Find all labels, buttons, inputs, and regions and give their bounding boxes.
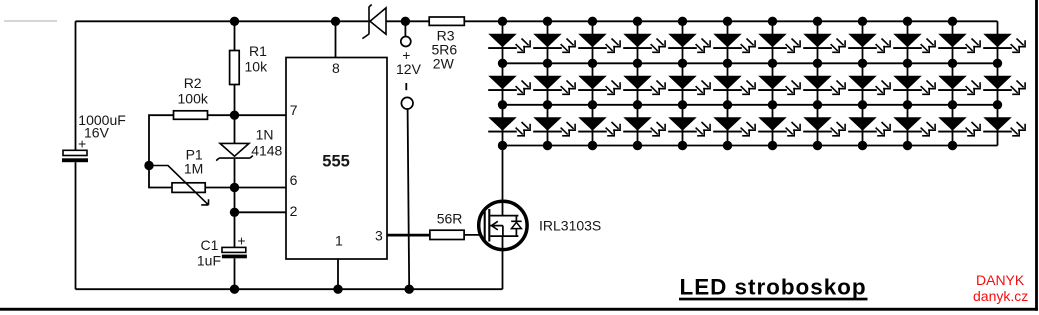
LED row 3 col 4 <box>623 118 665 136</box>
junction bottom bus col 1 <box>498 141 507 150</box>
LED row 3 col 10 <box>893 118 935 136</box>
LED row 3 col 12 <box>983 118 1025 136</box>
junction bus2 col 3 <box>588 59 597 68</box>
junction bus3 col 7 <box>768 100 777 109</box>
svg-text:R1: R1 <box>249 43 267 59</box>
svg-text:1N: 1N <box>256 127 274 143</box>
svg-text:+: + <box>78 136 86 152</box>
junction bus3 col 1 <box>498 100 507 109</box>
wire: LED column 2 <box>547 21 549 145</box>
junction bottom bus col 5 <box>678 141 687 150</box>
junction top bus col 7 <box>768 17 777 26</box>
op-amp U1 555 timer box <box>286 58 387 260</box>
node -12V supply terminal <box>401 83 413 289</box>
LED row 2 col 8 <box>803 76 845 94</box>
junction top bus col 5 <box>678 17 687 26</box>
wire: LED column 1 <box>502 21 504 145</box>
junction bus3 col 11 <box>948 100 957 109</box>
LED row 2 col 9 <box>848 76 890 94</box>
LED row 3 col 11 <box>938 118 980 136</box>
junction bus3 col 4 <box>633 100 642 109</box>
junction bottom bus col 9 <box>858 141 867 150</box>
junction bus2 col 6 <box>723 59 732 68</box>
wire: P1 to 555 pin 6 <box>205 187 286 189</box>
wire: R1 to pin7 node <box>234 85 236 116</box>
junction C1 / ground bus <box>230 285 239 294</box>
junction pin 1 / ground bus <box>333 285 342 294</box>
diode D1 reverse protection <box>362 5 386 39</box>
LED row 2 col 1 <box>488 76 530 94</box>
LED row 1 col 4 <box>623 34 665 52</box>
LED row 1 col 8 <box>803 34 845 52</box>
svg-text:10k: 10k <box>245 58 269 74</box>
junction bus3 col 6 <box>723 100 732 109</box>
junction bottom bus col 7 <box>768 141 777 150</box>
wire: LED bottom bus <box>503 145 998 147</box>
wire: capacitor negative to ground rail <box>75 162 77 289</box>
svg-text:+: + <box>237 232 245 248</box>
svg-text:555: 555 <box>322 153 350 171</box>
wire: left supply rail down to capacitor <box>75 21 77 150</box>
potentiometer P1 1M <box>149 146 209 205</box>
wire: LED top bus <box>503 20 998 22</box>
capacitor C1 1uF <box>197 232 247 268</box>
svg-text:16V: 16V <box>84 125 110 141</box>
svg-text:danyk.cz: danyk.cz <box>973 288 1028 304</box>
wire: 56R to gate of Q1 <box>464 234 484 236</box>
wire: diode anode to R3 <box>386 20 429 22</box>
LED row 2 col 6 <box>713 76 755 94</box>
svg-text:LED stroboskop: LED stroboskop <box>680 275 867 300</box>
svg-text:2W: 2W <box>433 55 455 71</box>
LED row 1 col 5 <box>668 34 710 52</box>
LED row 2 col 12 <box>983 76 1025 94</box>
junction R1-R2-pin7 node <box>230 111 239 120</box>
wire: LED column 12 <box>997 21 999 145</box>
LED row 3 col 6 <box>713 118 755 136</box>
diode 1N4148 <box>216 127 282 161</box>
LED row 2 col 7 <box>758 76 800 94</box>
wire: LED column 9 <box>862 21 864 145</box>
svg-text:56R: 56R <box>437 210 463 226</box>
junction bus3 col 8 <box>813 100 822 109</box>
LED row 3 col 3 <box>578 118 620 136</box>
junction top rail / pin 8 <box>331 17 340 26</box>
wire: +12V top rail from C2 to diode cathode <box>76 20 369 22</box>
junction bus3 col 5 <box>678 100 687 109</box>
junction bus2 col 11 <box>948 59 957 68</box>
wire: LED bus row 3 <box>503 104 998 106</box>
svg-text:8: 8 <box>332 60 340 76</box>
svg-text:1uF: 1uF <box>197 252 221 268</box>
resistor 56R <box>430 210 464 239</box>
LED row 2 col 5 <box>668 76 710 94</box>
wire: R2 left lead and corner down <box>149 115 174 187</box>
junction top bus col 9 <box>858 17 867 26</box>
resistor R3 5R6 2W <box>429 17 464 71</box>
svg-text:IRL3103S: IRL3103S <box>539 218 601 234</box>
svg-text:6: 6 <box>290 172 298 188</box>
wire: LED bus row 2 <box>503 62 998 64</box>
junction top rail / +12V <box>401 17 410 26</box>
svg-text:1M: 1M <box>184 160 203 176</box>
resistor R1 10k <box>230 43 268 84</box>
LED row 1 col 12 <box>983 34 1025 52</box>
LED row 2 col 4 <box>623 76 665 94</box>
wire: 555 pin 3 to 56R (thick) <box>387 234 430 237</box>
LED row 1 col 11 <box>938 34 980 52</box>
junction bus3 col 3 <box>588 100 597 109</box>
junction top bus col 2 <box>543 17 552 26</box>
LED row 1 col 7 <box>758 34 800 52</box>
junction top bus col 4 <box>633 17 642 26</box>
junction top bus col 6 <box>723 17 732 26</box>
junction bus2 col 2 <box>543 59 552 68</box>
junction bus3 col 10 <box>903 100 912 109</box>
wire: C1 to ground bus <box>234 258 236 289</box>
junction bus2 col 4 <box>633 59 642 68</box>
svg-text:2: 2 <box>290 203 298 219</box>
junction bottom bus col 2 <box>543 141 552 150</box>
junction bus2 col 1 <box>498 59 507 68</box>
LED row 1 col 10 <box>893 34 935 52</box>
wire: LED column 5 <box>682 21 684 145</box>
junction bus2 col 9 <box>858 59 867 68</box>
wire: pin7 node to 555 pin 7 <box>207 114 286 116</box>
junction bus3 col 2 <box>543 100 552 109</box>
svg-text:1: 1 <box>335 232 343 248</box>
junction bottom bus col 3 <box>588 141 597 150</box>
svg-text:12V: 12V <box>396 61 422 77</box>
wire: LED array return to Q1 drain <box>502 146 504 216</box>
junction top bus col 8 <box>813 17 822 26</box>
junction top rail / R1 <box>230 17 239 26</box>
junction pin 2 node <box>230 208 239 217</box>
transistor Q1 IRL3103S MOSFET <box>479 201 602 249</box>
junction top bus col 3 <box>588 17 597 26</box>
wire: top rail to R1 <box>234 21 236 50</box>
wire: R3 to LED array top bus <box>464 20 502 22</box>
wire: LED column 6 <box>727 21 729 145</box>
junction pin 6 node <box>230 183 239 192</box>
LED row 1 col 9 <box>848 34 890 52</box>
svg-text:7: 7 <box>290 102 298 118</box>
LED row 1 col 2 <box>533 34 575 52</box>
svg-text:DANYK: DANYK <box>976 272 1025 288</box>
junction bottom bus col 4 <box>633 141 642 150</box>
junction bus2 col 5 <box>678 59 687 68</box>
wire: LED column 4 <box>637 21 639 145</box>
junction bottom bus col 11 <box>948 141 957 150</box>
svg-text:100k: 100k <box>178 90 209 106</box>
junction bus3 col 9 <box>858 100 867 109</box>
wire: minus terminal down to ground bus <box>408 109 410 289</box>
LED row 3 col 8 <box>803 118 845 136</box>
wire: 555 pin 1 to ground bus <box>337 259 339 289</box>
junction P1 wiper tie <box>144 161 153 170</box>
wire: ground bus <box>76 288 503 290</box>
LED row 1 col 1 <box>488 34 530 52</box>
node +12V supply terminal <box>396 21 422 77</box>
LED row 1 col 3 <box>578 34 620 52</box>
junction bus2 col 7 <box>768 59 777 68</box>
wire: 1N4148 cathode down past pin6/pin2 nodes to C1 <box>234 159 236 248</box>
wire: LED column 10 <box>907 21 909 145</box>
junction bottom bus col 8 <box>813 141 822 150</box>
wire: scan artifact line top-left <box>4 20 57 22</box>
junction bus2 col 8 <box>813 59 822 68</box>
junction top bus col 10 <box>903 17 912 26</box>
junction bottom bus col 6 <box>723 141 732 150</box>
LED row 3 col 5 <box>668 118 710 136</box>
junction bus2 col 10 <box>903 59 912 68</box>
wire: LED column 11 <box>952 21 954 145</box>
svg-text:3: 3 <box>375 228 383 244</box>
wire: pin2 node to 555 pin 2 <box>235 211 287 213</box>
junction top bus col 1 <box>498 17 507 26</box>
LED row 3 col 9 <box>848 118 890 136</box>
junction minus terminal / ground bus <box>405 285 414 294</box>
svg-text:4148: 4148 <box>251 142 282 158</box>
junction top bus col 11 <box>948 17 957 26</box>
LED row 2 col 10 <box>893 76 935 94</box>
LED row 2 col 11 <box>938 76 980 94</box>
wire: LED column 8 <box>817 21 819 145</box>
junction bottom bus col 10 <box>903 141 912 150</box>
wire: Q1 source to ground bus <box>502 236 504 289</box>
LED row 3 col 7 <box>758 118 800 136</box>
LED row 2 col 2 <box>533 76 575 94</box>
wire: LED column 7 <box>772 21 774 145</box>
junction bus3 col 12 <box>993 100 1002 109</box>
node title LED stroboskop <box>679 275 868 301</box>
LED row 2 col 3 <box>578 76 620 94</box>
svg-text:R2: R2 <box>184 75 202 91</box>
capacitor 1000uF 16V <box>62 112 126 162</box>
wire: pin7 node down to 1N4148 anode <box>234 115 236 143</box>
junction bus2 col 12 <box>993 59 1002 68</box>
LED row 3 col 1 <box>488 118 530 136</box>
svg-text:C1: C1 <box>201 237 219 253</box>
LED row 3 col 2 <box>533 118 575 136</box>
LED row 1 col 6 <box>713 34 755 52</box>
resistor R2 100k <box>174 75 209 119</box>
wire: LED column 3 <box>592 21 594 145</box>
wire: 555 pin 8 to top rail <box>335 21 337 57</box>
